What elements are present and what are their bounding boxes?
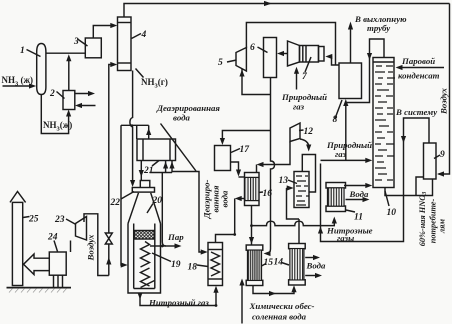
svg-text:Деаэрированная: Деаэрированная: [156, 103, 220, 113]
label 12 leader: [299, 129, 304, 132]
svg-text:конденсат: конденсат: [398, 71, 440, 81]
svg-text:Нитрозный газ: Нитрозный газ: [148, 298, 209, 308]
wire: nitrous gas header to condenser 11: [252, 220, 335, 226]
wire: 16 bottom stub down to 15: [251, 206, 253, 245]
wire: riser header: [150, 172, 173, 174]
svg-text:3: 3: [73, 37, 79, 47]
wire: "v sistemu" recycle loop from 9: [321, 118, 430, 242]
air duct from blower 23: [84, 214, 109, 276]
wire: pump 2 outlet up to line: [68, 58, 70, 91]
absorption column 10: [373, 58, 394, 188]
gas cooler 18: [208, 243, 223, 286]
wire: vessel 1 bottom loop to pump 2: [41, 95, 68, 134]
water heater 17: [215, 146, 231, 171]
wire: stubs from header into steam drum 21: [136, 125, 138, 139]
expander 12: [290, 123, 300, 142]
wire: from unit 8 to turbine 7: [329, 57, 340, 66]
label 19 leader: [152, 253, 171, 262]
blower 23: [76, 217, 87, 241]
svg-text:5: 5: [218, 58, 223, 68]
stack 25: [12, 202, 22, 285]
frame line over turbine group: [246, 23, 335, 66]
svg-text:23: 23: [54, 215, 65, 225]
svg-text:газы: газы: [337, 233, 354, 243]
wire: NH3 gas line from column 4 down to mixer 22, jog over header: [130, 71, 133, 184]
wire: NH3 liquid feed arrow into vessel 1: [3, 85, 33, 87]
label 2 leader: [57, 92, 65, 99]
label 6 leader: [258, 47, 268, 53]
svg-text:лям: лям: [437, 219, 446, 235]
label 4 leader: [132, 34, 142, 39]
svg-text:NH3(г): NH3(г): [141, 77, 168, 90]
label 25 leader: [23, 217, 30, 218]
svg-text:Воздух: Воздух: [439, 87, 449, 115]
wire: 15 bottom to 14 bottom: [253, 286, 294, 294]
svg-text:20: 20: [152, 196, 163, 206]
svg-text:газ: газ: [293, 102, 305, 112]
svg-text:12: 12: [304, 127, 314, 137]
wire: nitrous gas from reactor bottom to exchanger 18: [140, 289, 216, 306]
wire: 16 outlet to 18 top: [239, 198, 245, 200]
label 20 leader: [147, 204, 153, 214]
gas turbine 7: [288, 41, 300, 66]
separator 13: [294, 172, 309, 208]
gas heater 16: [245, 173, 260, 206]
mixer column 4: [118, 17, 132, 71]
condenser 11: [326, 183, 346, 189]
wire: steam pipe from coil up to header: [162, 173, 166, 247]
svg-text:Химически обес-: Химически обес-: [249, 301, 315, 311]
pump 2: [63, 91, 75, 110]
wire: recirculation loop 5 to 6: [242, 69, 271, 95]
svg-text:21: 21: [143, 166, 154, 176]
fan 24 legs: [54, 275, 63, 287]
svg-text:вода: вода: [220, 190, 230, 207]
wire: from 17 to heater 16 top: [231, 162, 239, 172]
label 18 leader: [197, 265, 208, 267]
svg-text:18: 18: [188, 263, 198, 273]
label 13 leader: [288, 180, 297, 184]
wire: water out of 14: [305, 257, 316, 259]
labels 15 14 leaders: [262, 263, 290, 267]
label 23 leader: [66, 219, 76, 225]
steam coil 19 upper: [141, 242, 150, 268]
wire: heater 3 to mixer column 4: [93, 26, 114, 39]
compressor 5: [236, 48, 246, 72]
wire: gas from absorber 10 top to 8: [347, 39, 384, 103]
big exhaust arrow into stack 25: [24, 254, 50, 275]
ground line: [7, 287, 72, 289]
label 11 leader: [346, 210, 355, 212]
label 10 leader: [385, 191, 389, 206]
wire: 11 top to absorber 10: [344, 185, 369, 187]
reactor cone 20: [128, 193, 161, 224]
ammonia evaporator vessel 1: [37, 44, 46, 95]
wire: steam line from coil through wall: [150, 245, 162, 247]
label 17 leader: [231, 149, 240, 153]
inner walls: [134, 224, 155, 289]
svg-text:9: 9: [440, 150, 445, 160]
label 21 leader: [152, 161, 159, 167]
wire: feed water line from drum right to deaerator pipe: [172, 172, 205, 253]
valve on air line: [105, 233, 112, 244]
svg-text:14: 14: [274, 258, 284, 268]
reactor body 20: [128, 224, 161, 294]
wire: gas from 12 left side to heater 16: [260, 142, 291, 165]
svg-text:16: 16: [263, 189, 273, 199]
label 8 leader: [335, 100, 342, 119]
svg-text:трубу: трубу: [367, 23, 390, 33]
mixer head 22 on reactor: [140, 181, 150, 189]
label 9 leader: [434, 155, 440, 159]
condensate cooler 15: [246, 245, 263, 250]
wire: natural gas riser into 8: [345, 103, 347, 160]
steam drum 21: [137, 139, 176, 161]
wire: Par (steam) arrow: [163, 245, 178, 247]
wire arrowhead on top line: [264, 1, 272, 6]
svg-text:10: 10: [387, 208, 397, 218]
wire: gas line into absorber 10 left: [321, 159, 369, 161]
svg-text:25: 25: [28, 215, 39, 225]
wire: pump 2 side arrows: [75, 93, 91, 95]
wire: air line down right edge to absorber 9: [439, 4, 450, 175]
wire: drum 21 left stubs down to mixer 22: [140, 161, 142, 182]
acid cooler 9: [424, 143, 437, 179]
svg-text:Природный: Природный: [281, 92, 327, 102]
wire: 10 bottom to acid cooler 9: [385, 180, 433, 196]
svg-text:13: 13: [279, 176, 289, 186]
svg-text:Воздух: Воздух: [86, 234, 96, 262]
svg-text:Паровой: Паровой: [401, 56, 435, 66]
wire: drum 21 right riser stubs: [165, 161, 167, 173]
svg-text:вода: вода: [173, 113, 190, 123]
svg-text:потребите-: потребите-: [428, 199, 437, 244]
catalyst gauze band: [134, 231, 154, 240]
wire: water header above drum 21: [121, 124, 149, 126]
label 5 leader: [227, 60, 237, 62]
label 7 leader: [305, 57, 311, 72]
wire: exhaust stack arrow from 8 top: [350, 26, 352, 63]
wire: vessel 1 top to heater 3: [46, 52, 85, 54]
svg-text:60%-ная HNO3: 60%-ная HNO3: [418, 192, 428, 247]
wire: natural gas arrow up into turbine 7: [296, 71, 298, 90]
wire: steam condensate into 10: [399, 67, 444, 69]
separator riser loop: [302, 155, 315, 193]
svg-text:В систему: В систему: [395, 107, 437, 117]
svg-text:17: 17: [240, 145, 251, 155]
svg-text:22: 22: [110, 198, 121, 208]
wire: chem purified water arrow up: [241, 282, 243, 324]
svg-text:24: 24: [47, 233, 58, 243]
coil outlet diagonal: [141, 281, 155, 288]
wire arrowhead into 9 right side: [437, 171, 444, 176]
air line from compressor 6 down to exchanger 15: [267, 78, 275, 254]
label NH3(g) leader: [136, 69, 144, 78]
wire: circulation to 17 top: [222, 131, 270, 142]
leader for deaerated water label: [161, 124, 197, 172]
condenser 14: [289, 244, 306, 249]
exhaust fan 24: [49, 252, 66, 275]
label 24 leader: [54, 241, 58, 252]
svg-text:соленная вода: соленная вода: [252, 312, 307, 322]
svg-text:2: 2: [49, 89, 55, 99]
contact apparatus 8: [339, 63, 362, 99]
junction dots: [233, 233, 236, 236]
wire: turbine 7 to compressor 6: [280, 53, 288, 55]
air compressor 6: [264, 38, 277, 78]
svg-text:Природный: Природный: [326, 140, 372, 150]
wire: 13 drain down to exchanger 14: [298, 219, 300, 243]
svg-text:6: 6: [250, 43, 255, 53]
svg-text:Вода: Вода: [306, 261, 327, 271]
wire: water out of 11: [346, 199, 367, 201]
svg-text:4: 4: [141, 30, 147, 40]
svg-text:1: 1: [20, 46, 25, 56]
wire: 23 to 24: [70, 241, 72, 253]
svg-text:19: 19: [171, 260, 181, 270]
svg-text:8: 8: [333, 115, 338, 125]
svg-text:Пар: Пар: [167, 232, 184, 242]
steam coil 19 lower: [141, 268, 150, 286]
svg-text:7: 7: [302, 72, 308, 82]
svg-text:газ: газ: [335, 149, 347, 159]
wire: main top line from column 4 to right edge: [124, 4, 450, 18]
wire: gas from 12 down to separator riser: [300, 139, 309, 147]
wire: secondary air into column 4: [109, 65, 114, 276]
label 16 leader: [259, 191, 264, 194]
label 3 leader: [78, 39, 88, 46]
heater 3: [85, 38, 101, 58]
label 1 leader: [27, 50, 41, 57]
label 22 leader: [121, 192, 134, 200]
arrowhead up on air line: [106, 257, 111, 265]
svg-text:11: 11: [354, 213, 363, 223]
wire: header down to reactor inlet: [121, 125, 125, 265]
svg-text:Вода: Вода: [349, 189, 370, 199]
wire: arrow into 13 left: [287, 187, 291, 189]
svg-text:15: 15: [264, 258, 274, 268]
